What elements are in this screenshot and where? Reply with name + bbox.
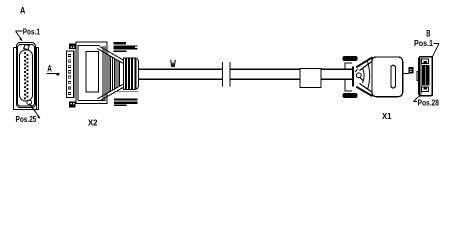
svg-text:A: A — [47, 63, 52, 73]
svg-text:Pos.25: Pos.25 — [16, 115, 37, 124]
svg-text:B: B — [426, 28, 431, 38]
svg-text:Pos.28: Pos.28 — [418, 99, 440, 108]
svg-text:A: A — [20, 5, 26, 15]
svg-text:X2: X2 — [88, 119, 98, 128]
svg-text:Pos.1: Pos.1 — [414, 39, 433, 48]
svg-text:Pos.1: Pos.1 — [23, 28, 41, 37]
svg-text:X1: X1 — [382, 112, 392, 121]
